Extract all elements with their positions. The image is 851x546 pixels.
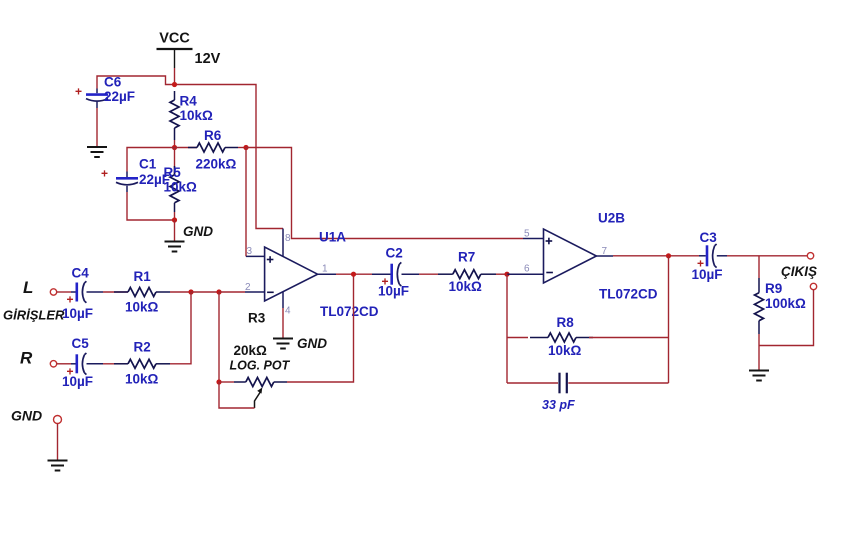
wire node F down to potentiometer [218,292,220,382]
node F junction [216,289,221,294]
node B junction [172,145,177,150]
resistor R5 [170,148,179,221]
wire C1 bottom to node D [127,192,175,220]
wire node C to U2B pin 5 [246,148,523,239]
svg-text:100kΩ: 100kΩ [765,296,806,311]
capacitor 33pF [507,373,669,394]
node E junction [188,289,193,294]
wire C5 to R2 [87,363,104,365]
pin 8 stub U1A [282,229,284,257]
svg-text:10kΩ: 10kΩ [180,108,214,123]
svg-text:C1: C1 [139,157,157,172]
op-amp U2B [544,229,597,283]
svg-text:10kΩ: 10kΩ [125,372,159,387]
svg-text:VCC: VCC [159,31,190,47]
feedback resistor R8 [507,333,669,342]
resistor R9 [755,256,764,346]
power symbol VCC [157,31,193,69]
svg-text:GİRİŞLER: GİRİŞLER [3,308,65,323]
svg-text:12V: 12V [195,51,221,67]
wire R7 to node I [496,273,507,275]
svg-text:20kΩ: 20kΩ [234,343,268,358]
svg-text:C2: C2 [386,246,403,261]
wire L to C4 [57,291,71,293]
node J junction [666,253,671,258]
svg-text:C3: C3 [700,230,718,245]
input terminal L [50,289,56,295]
svg-text:3: 3 [247,246,253,257]
wire C2 to R7 [419,273,438,275]
ground bottom left [48,461,68,471]
wire R9 bottom to ground [758,346,760,370]
svg-text:R6: R6 [204,128,222,143]
wire R1 to node E [170,291,191,293]
svg-text:22µF: 22µF [104,89,135,104]
wire node I down left leg [506,274,508,383]
output terminal 1 [807,253,813,259]
wire node F to U1A pin 2 [219,291,245,293]
pin 1 stub U1A [318,273,336,275]
svg-text:22µF: 22µF [139,172,170,187]
capacitor C6 [75,85,108,109]
resistor R1 [114,288,170,297]
svg-text:10µF: 10µF [692,267,723,282]
wire C4 to R1 [87,291,104,293]
ground under R9 [749,371,769,381]
svg-text:4: 4 [285,306,291,317]
capacitor C3 [697,244,727,270]
ground under R5 [165,242,185,252]
ground under U1A [273,339,293,349]
wire U2B output to C3 [613,255,699,257]
svg-text:2: 2 [245,282,251,293]
wire C1 top to node B [127,148,175,172]
svg-text:R4: R4 [180,94,198,109]
svg-text:+: + [75,85,82,99]
svg-text:L: L [23,278,33,297]
pin 5 stub U2B [523,238,544,240]
svg-text:R9: R9 [765,281,782,296]
svg-text:R8: R8 [557,315,575,330]
svg-text:LOG. POT: LOG. POT [230,359,291,373]
wire node D to ground [174,220,176,241]
svg-text:C5: C5 [72,336,90,351]
svg-text:5: 5 [524,229,530,240]
wire pot right to U1A output [287,274,354,382]
svg-text:1: 1 [322,264,328,275]
potentiometer R3 [219,378,287,409]
svg-text:R2: R2 [134,340,151,355]
wire C6 to ground [96,108,98,146]
ground under C6 [87,147,107,157]
svg-text:GND: GND [183,224,213,239]
output terminal 2 [810,283,816,289]
node H junction [351,272,356,277]
svg-text:10µF: 10µF [378,284,409,299]
wire R2 up to node E [170,292,191,364]
wire output terminal 2 to R9 bottom [759,290,814,346]
svg-text:R3: R3 [248,311,266,326]
resistor R2 [114,359,170,368]
svg-text:+: + [66,293,73,307]
pin 4 stub U1A [282,292,284,308]
svg-text:8: 8 [285,233,291,244]
pin 2 stub U1A [245,291,265,293]
wire R4 to node B [174,140,176,148]
resistor R7 [438,270,496,279]
svg-text:10kΩ: 10kΩ [449,279,483,294]
svg-text:ÇIKIŞ: ÇIKIŞ [781,264,817,279]
resistor R4 [170,91,179,140]
wire node A to C6 top [97,76,175,89]
svg-text:TL072CD: TL072CD [320,304,379,319]
node I junction [504,272,509,277]
pin 3 stub U1A [246,255,265,257]
svg-text:TL072CD: TL072CD [599,287,658,302]
capacitor C5 [66,353,86,378]
wire node C down to U1A pin 3 [245,148,247,257]
svg-text:10kΩ: 10kΩ [548,343,582,358]
wire node E to node F [191,291,219,293]
svg-text:GND: GND [297,336,327,351]
svg-text:7: 7 [602,246,608,257]
node C junction [243,145,248,150]
node A junction [172,82,177,87]
svg-text:C4: C4 [72,266,90,281]
svg-text:GND: GND [11,408,42,424]
input terminal GND [54,416,62,424]
capacitor C1 [101,167,138,193]
svg-text:R7: R7 [458,250,475,265]
svg-text:10kΩ: 10kΩ [125,300,159,315]
svg-text:R1: R1 [134,269,152,284]
wire R to C5 [57,363,71,365]
wire pin 4 to ground [282,308,284,338]
wire GND terminal to ground [57,424,59,460]
wire U1A output to C2 [336,273,372,275]
svg-text:6: 6 [524,264,530,275]
wire node J down right leg [668,256,670,383]
op-amp U1A [265,247,318,301]
svg-text:+: + [101,167,108,181]
svg-text:33 pF: 33 pF [542,398,575,412]
wire C3 to output terminal [727,255,807,257]
svg-text:U1A: U1A [319,230,346,245]
svg-text:U2B: U2B [598,211,625,226]
wire VCC stub to node A [174,68,176,85]
node D junction [172,217,177,222]
node G junction [216,379,221,384]
svg-text:10µF: 10µF [62,306,93,321]
capacitor C4 [66,281,86,306]
wire pot wiper loop [219,382,255,408]
svg-text:220kΩ: 220kΩ [196,157,237,172]
svg-text:C6: C6 [104,75,122,90]
input terminal R [50,361,56,367]
resistor R6 [175,143,247,152]
svg-text:10µF: 10µF [62,374,93,389]
pin 7 stub U2B [596,255,613,257]
pin 6 stub U2B [507,273,544,275]
svg-text:R: R [20,349,33,368]
capacitor C2 [372,262,419,288]
wire node A right and down to U1A pin 8 [175,85,284,229]
